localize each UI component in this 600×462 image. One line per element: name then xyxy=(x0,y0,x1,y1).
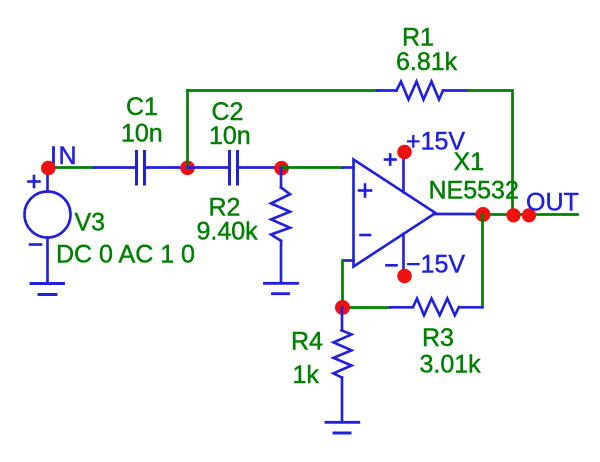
junction node B (C2/R2/op-amp +) xyxy=(274,161,289,176)
svg-text:R4: R4 xyxy=(291,328,323,356)
svg-text:10n: 10n xyxy=(121,120,163,148)
wire R1 to output vertical xyxy=(468,91,513,216)
supply minus mark xyxy=(387,264,397,267)
resistor R4 xyxy=(334,308,352,423)
wire output to OUT xyxy=(476,213,578,216)
svg-text:6.81k: 6.81k xyxy=(396,48,458,76)
V3 plus polarity mark xyxy=(29,180,40,183)
svg-text:3.01k: 3.01k xyxy=(420,351,482,379)
wire op-amp output (blue stub) xyxy=(434,213,476,216)
junction output node dot 3 xyxy=(522,208,536,222)
wire inverting input down to node C xyxy=(341,261,344,308)
svg-text:+15V: +15V xyxy=(406,128,465,156)
V3 minus polarity mark xyxy=(30,243,41,246)
svg-text:R3: R3 xyxy=(422,324,454,352)
wire node C to R3 xyxy=(343,306,391,309)
svg-text:9.40k: 9.40k xyxy=(197,218,259,246)
svg-text:C1: C1 xyxy=(126,93,158,121)
wire output down to R3 xyxy=(481,215,484,307)
-V supply pin xyxy=(402,234,405,272)
op-amp minus input mark xyxy=(361,234,371,237)
+V supply pin xyxy=(402,155,405,192)
wire feedback top horizontal xyxy=(188,89,378,92)
ground (R4) xyxy=(326,422,359,433)
svg-text:−15V: −15V xyxy=(406,250,465,278)
+15V supply node dot xyxy=(397,145,412,160)
wire node B to op-amp xyxy=(281,166,343,169)
svg-text:1k: 1k xyxy=(293,361,320,389)
ground (V3) xyxy=(31,284,64,295)
op-amp inverting input stub xyxy=(343,259,354,262)
junction node C (R3/R4/inverting) xyxy=(335,300,350,315)
-15V supply node dot xyxy=(397,269,412,284)
junction output node dot 1 xyxy=(476,207,491,222)
op-amp non-inverting input stub xyxy=(343,166,354,169)
svg-text:10n: 10n xyxy=(209,122,251,150)
svg-text:DC 0 AC 1 0: DC 0 AC 1 0 xyxy=(56,241,195,269)
svg-text:NE5532: NE5532 xyxy=(429,177,519,205)
supply plus mark xyxy=(385,158,396,161)
svg-text:V3: V3 xyxy=(75,209,106,237)
wire node A up to feedback xyxy=(186,91,189,169)
ground (R2) xyxy=(265,283,298,293)
voltage source V3 xyxy=(25,168,71,283)
wire IN node to C1 xyxy=(48,166,94,169)
resistor R3 xyxy=(390,299,483,316)
node IN junction dot xyxy=(41,161,56,176)
capacitor C2 xyxy=(188,152,281,185)
junction output node dot 2 xyxy=(506,208,520,222)
op-amp plus input mark xyxy=(359,189,371,192)
capacitor C1 xyxy=(94,152,187,185)
svg-text:OUT: OUT xyxy=(526,189,579,217)
op-amp X1 xyxy=(343,155,436,273)
junction node A (C1/C2/R1) xyxy=(180,161,195,176)
resistor R1 xyxy=(377,82,468,100)
resistor R2 xyxy=(271,168,290,283)
